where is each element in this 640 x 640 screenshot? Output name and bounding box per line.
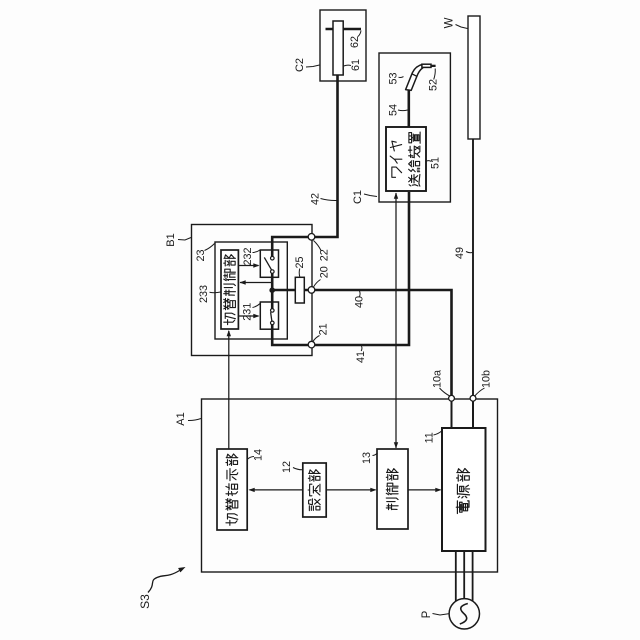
switch 231 body [260,302,278,329]
svg-text:P: P [421,610,433,618]
sense wire to 233 [240,280,273,284]
label 233 [198,285,221,303]
svg-text:C1: C1 [352,190,364,204]
svg-text:232: 232 [242,247,254,265]
wire 12 to 14 arrow [249,488,303,492]
wire 42 (terminal 22 to electrode 61) [312,75,338,237]
torch 53 [406,64,431,90]
label 22 [314,241,331,262]
box 233 切替制御部 (switching control) [221,250,238,329]
wire 41 (terminal 21 to wire feeder) [312,192,410,345]
label W [444,17,468,28]
box 51 ワイヤ送給装置 (wire feeder) [386,127,426,191]
label 41 [355,346,367,363]
label 13 [361,452,378,464]
label 12 [281,461,302,473]
label 10a [432,370,450,396]
wire 11 to 10a [451,398,453,428]
wire junction to 25 to terminal 20 [272,289,311,292]
svg-text:23: 23 [195,249,207,261]
label 25 [294,256,306,276]
svg-text:C2: C2 [294,58,306,72]
enclosure A1 (welding power supply unit) [202,399,498,572]
terminal 10a [449,395,455,401]
switch 232 contacts [264,256,274,273]
wire 12 to 13 arrow [326,488,376,492]
svg-text:231: 231 [242,303,254,321]
label C2 [294,58,320,72]
box 23 (switch circuit) [215,242,287,339]
svg-text:42: 42 [310,193,322,205]
label 62 [349,31,361,49]
enclosure C1 [379,53,450,202]
label 40 [354,291,366,308]
label 14 [248,449,265,461]
svg-text:B1: B1 [165,233,177,246]
wire 11 to 10b [472,398,474,428]
box 13 制御部 (control section) [377,449,408,529]
svg-text:41: 41 [355,351,367,363]
label 11 [424,431,443,444]
label C1 [352,190,377,204]
svg-text:53: 53 [388,72,400,84]
svg-text:61: 61 [350,59,362,71]
switch 232 body [260,250,278,277]
label 53 [388,72,404,84]
junction dot [269,287,275,293]
svg-text:62: 62 [349,36,361,48]
terminal 22 [308,234,315,241]
control wire 14 to 233 [227,330,231,449]
control wire 233 to 232 [238,263,259,267]
box 12 設定部 (setting section) [303,463,326,517]
control wire 13 to 51 (bidirectional) [394,193,398,449]
svg-text:W: W [444,17,456,28]
svg-text:22: 22 [319,249,331,261]
svg-text:12: 12 [281,461,293,473]
enclosure C2 [320,10,366,81]
wire junction to 231 [271,290,274,309]
svg-text:233: 233 [198,285,210,303]
svg-text:13: 13 [361,452,373,464]
wire 49 (workpiece W to 10b) [472,139,474,398]
svg-text:10a: 10a [432,370,444,388]
component 25 (voltage detector) [295,277,304,303]
label 61 [344,59,362,71]
wire 62 [326,28,362,31]
label P [421,610,449,618]
label 52 [428,69,440,92]
wire 13 to 11 arrow [408,488,442,492]
svg-text:14: 14 [253,449,265,461]
control wire 233 to 231 [238,314,259,318]
svg-text:25: 25 [294,256,306,268]
label 232 [242,247,260,265]
label B1 [165,233,191,246]
box 11 電源部 (power source section) [442,428,486,551]
label 49 [454,247,473,259]
wire 54 (torch cable) [407,90,410,127]
label 10b [475,370,493,396]
box 14 切替指示部 (switching instruction) [217,449,247,530]
svg-text:20: 20 [319,266,331,278]
terminal 21 [308,341,315,348]
svg-text:49: 49 [454,247,466,259]
AC source P [449,551,479,629]
svg-text:52: 52 [428,79,440,91]
wire 40 (terminal 20 to 10a) [312,290,452,398]
workpiece W [468,16,480,139]
label 21 [313,323,330,341]
wire 232 to terminal 22 [272,237,311,257]
svg-text:11: 11 [424,432,436,443]
svg-text:21: 21 [318,323,330,335]
wire 231 to terminal 21 [272,324,311,345]
enclosure B1 (switching unit) [192,225,313,356]
label 54 [388,104,408,116]
svg-text:54: 54 [388,104,400,116]
label 51 [427,157,442,169]
switch 231 contacts [271,309,275,325]
terminal 10b [470,395,476,401]
label 42 [310,193,337,205]
terminal 20 [308,287,315,294]
contact tip 52 [431,65,436,67]
svg-text:40: 40 [354,296,366,308]
wire 232 to junction [271,273,274,291]
label S3 with arrow [138,567,186,609]
svg-text:10b: 10b [481,370,493,388]
svg-text:51: 51 [430,157,442,169]
label 231 [242,303,260,321]
label 20 [314,266,331,287]
label 23 [195,244,215,262]
svg-text:S3: S3 [138,594,152,609]
svg-text:A1: A1 [175,412,187,425]
label A1 [175,412,201,425]
electrode 61 [333,21,343,75]
